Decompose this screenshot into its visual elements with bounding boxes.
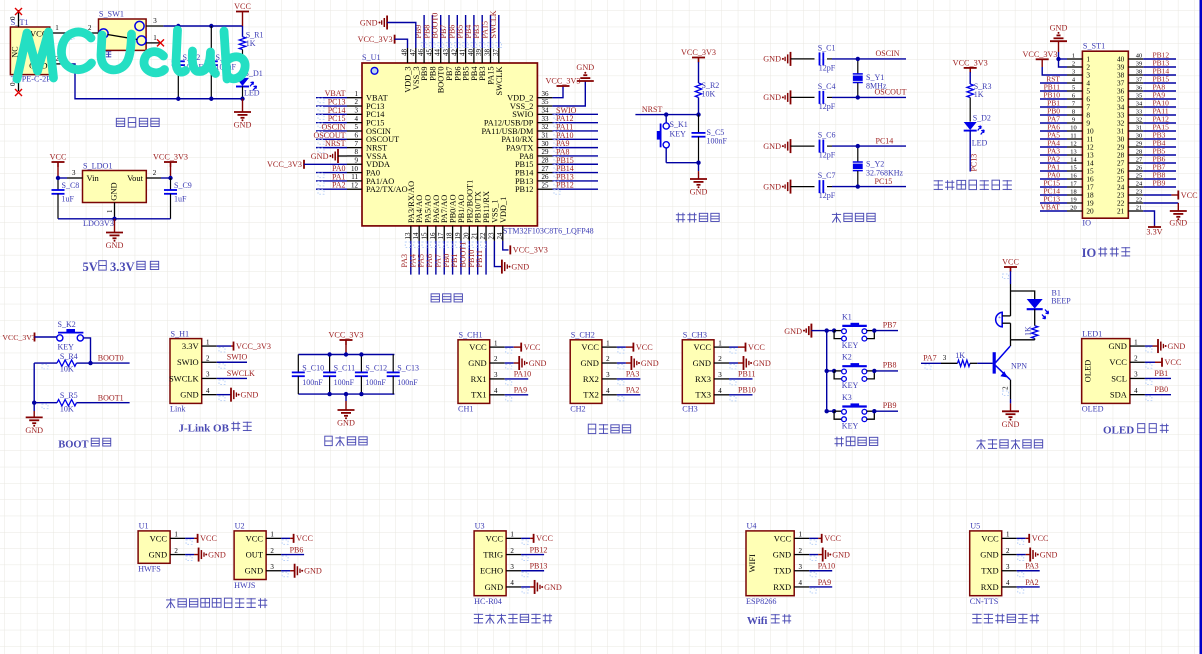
svg-text:6: 6 <box>355 132 359 140</box>
wire and net label PC14 <box>316 113 347 115</box>
svg-text:VCC: VCC <box>748 343 765 352</box>
svg-text:3.3V: 3.3V <box>1146 228 1162 237</box>
svg-text:GND: GND <box>784 327 802 336</box>
wire and net label PB4 pin 29 <box>1143 146 1176 148</box>
svg-text:7: 7 <box>355 140 359 148</box>
svg-text:24: 24 <box>496 232 504 240</box>
svg-text:39: 39 <box>1136 61 1142 68</box>
svg-text:OSCIN: OSCIN <box>876 49 900 58</box>
key K2 KEY <box>825 369 829 373</box>
wire and net label PA12 pin 32 <box>1143 122 1176 124</box>
wire NRST node <box>635 114 698 116</box>
svg-text:CN-TTS: CN-TTS <box>970 597 999 606</box>
svg-text:PB12: PB12 <box>515 185 533 194</box>
pin 14 of S_ST1 <box>1067 162 1082 164</box>
pin 47 VSS_3 of U1 <box>415 48 417 63</box>
svg-text:IO: IO <box>1082 219 1091 228</box>
svg-text:S_C11: S_C11 <box>334 364 356 373</box>
svg-text:44: 44 <box>434 49 442 57</box>
wire and net label PC14 <box>832 145 906 147</box>
svg-text:LED: LED <box>972 139 988 148</box>
wire and net label PA6 pin 10 <box>1040 130 1067 132</box>
svg-text:1: 1 <box>153 34 157 42</box>
ground GND at U1 pin 35 <box>552 81 585 106</box>
svg-text:VCC: VCC <box>469 342 487 352</box>
wire and net label PA10 pin 34 <box>1143 106 1176 108</box>
svg-text:GND: GND <box>468 358 486 368</box>
svg-text:43: 43 <box>442 49 450 57</box>
svg-text:20: 20 <box>462 232 470 240</box>
svg-text:0: 0 <box>9 16 17 20</box>
wire and net label PB7 <box>448 15 450 48</box>
pin 17 PA7/AO of U1 <box>443 226 445 241</box>
svg-text:PB0: PB0 <box>1154 385 1168 394</box>
wire and net label PC15 <box>316 122 347 124</box>
pin 7 NRST of U1 <box>347 147 362 149</box>
svg-text:21: 21 <box>1136 205 1142 212</box>
LED S_D1 <box>242 50 244 78</box>
svg-text:U2: U2 <box>235 522 245 531</box>
svg-text:KEY: KEY <box>842 341 859 350</box>
wire and net label OSCOUT <box>832 96 906 98</box>
wire filter bottom rail <box>298 393 394 395</box>
power VCC at pin 23 <box>1143 194 1171 196</box>
wire and net label PA12 <box>552 122 598 124</box>
wire and net label PC15 <box>832 186 906 188</box>
svg-text:31: 31 <box>1136 125 1142 132</box>
wire and net label BOOT1 <box>91 402 130 404</box>
svg-text:GND: GND <box>980 549 998 559</box>
svg-text:PB12: PB12 <box>556 181 574 190</box>
svg-text:19: 19 <box>1070 197 1076 204</box>
pin 2 of S_ST1 <box>1067 66 1082 68</box>
wire and net label PA1 <box>316 180 347 182</box>
svg-text:RX2: RX2 <box>583 374 599 384</box>
svg-text:PB11: PB11 <box>475 250 484 268</box>
svg-text:21: 21 <box>1117 207 1125 216</box>
svg-text:1: 1 <box>606 339 610 347</box>
svg-text:32: 32 <box>542 123 550 131</box>
svg-text:VCC: VCC <box>524 343 541 352</box>
pin 45 PB8 of U1 <box>431 48 433 63</box>
pin 42 PB6 of U1 <box>456 48 458 63</box>
ground GND alarm <box>1010 399 1012 403</box>
module U2 HWJS <box>234 531 266 580</box>
svg-text:1: 1 <box>206 338 210 346</box>
title 分离式红外开关模块 <box>166 599 175 601</box>
svg-text:2: 2 <box>798 547 802 555</box>
svg-text:S_LDO1: S_LDO1 <box>83 162 113 171</box>
svg-text:GND: GND <box>241 390 259 399</box>
svg-text:4: 4 <box>798 579 802 587</box>
pin 8 VSSA of U1 <box>347 155 362 157</box>
svg-text:PA9: PA9 <box>514 386 528 395</box>
wire and net label PB6 <box>456 15 458 48</box>
svg-text:PA2: PA2 <box>332 181 346 190</box>
svg-text:3: 3 <box>1072 69 1075 76</box>
svg-text:27: 27 <box>542 165 550 173</box>
ground GND at U5 pin 2 <box>1017 554 1026 556</box>
ground GND at U1 pin 8 VSSA <box>337 149 339 163</box>
svg-text:2: 2 <box>153 169 157 177</box>
wire and net label PA0 <box>316 172 347 174</box>
connector LED1 OLED display <box>1082 339 1130 404</box>
wire and net label PB9 pin 24 <box>1143 186 1176 188</box>
svg-text:GND: GND <box>234 121 252 130</box>
pin 38 PA15 of U1 <box>490 48 492 63</box>
svg-text:GND: GND <box>180 390 198 400</box>
svg-text:100nF: 100nF <box>397 378 418 387</box>
svg-text:1: 1 <box>55 24 59 32</box>
svg-text:2: 2 <box>206 354 210 362</box>
pin 35 of S_ST1 <box>1128 98 1143 100</box>
pin 30 of S_ST1 <box>1128 138 1143 140</box>
pin 34 SWIO of U1 <box>537 113 552 115</box>
svg-text:GND: GND <box>529 359 547 368</box>
wire and net label RST pin 4 <box>1040 82 1067 84</box>
svg-text:28: 28 <box>1136 149 1142 156</box>
pin 18 of S_ST1 <box>1067 194 1082 196</box>
wire alarm bottom join <box>1011 339 1035 341</box>
svg-text:20: 20 <box>1070 205 1076 212</box>
svg-text:33: 33 <box>542 115 550 123</box>
svg-text:45: 45 <box>425 49 433 57</box>
svg-text:35: 35 <box>542 98 550 106</box>
svg-text:S_Y2: S_Y2 <box>866 160 884 169</box>
wire and net label PB0 at LED1 pin 4 <box>1145 394 1171 396</box>
svg-text:U3: U3 <box>475 522 485 531</box>
wire and net label PB8 <box>431 15 433 48</box>
pin 35 VSS_2 of U1 <box>537 105 552 107</box>
transistor Q1 NPN <box>1010 340 1012 346</box>
logo MCUclub watermark <box>17 30 245 79</box>
svg-text:39: 39 <box>475 49 483 57</box>
svg-text:SWCLK: SWCLK <box>495 66 504 95</box>
pin 3 of S_ST1 <box>1067 74 1082 76</box>
svg-text:GND: GND <box>485 582 503 592</box>
wire button bus <box>811 330 826 332</box>
svg-text:NRST: NRST <box>642 105 663 114</box>
svg-text:4: 4 <box>1134 387 1138 395</box>
pin 28 of S_ST1 <box>1128 154 1143 156</box>
svg-text:20: 20 <box>1086 207 1094 216</box>
svg-text:3: 3 <box>1134 371 1138 379</box>
wire and net label PA11 pin 33 <box>1143 114 1176 116</box>
svg-text:23: 23 <box>1136 189 1142 196</box>
wire and net label PB11 pin 5 <box>1040 90 1067 92</box>
svg-text:OLED: OLED <box>1082 405 1104 414</box>
power VCC at U4 pin 1 <box>809 537 818 539</box>
pin 40 PB4 of U1 <box>473 48 475 63</box>
wire and net label PB0 pin 8 <box>1040 114 1067 116</box>
pin 2 GND of S_T1 <box>50 63 65 65</box>
capacitor S_C7 12pF <box>791 186 815 188</box>
wire and net label SWIO at S_H1 pin 2 <box>217 361 247 363</box>
svg-text:S_C9: S_C9 <box>174 181 192 190</box>
power VCC_3V3 at U1 pin 36 <box>552 86 563 98</box>
svg-text:GND: GND <box>580 358 598 368</box>
svg-text:29: 29 <box>1136 141 1142 148</box>
ground GND at U4 pin 2 <box>809 554 818 556</box>
svg-text:18: 18 <box>1070 189 1076 196</box>
svg-text:VCC_3V3: VCC_3V3 <box>953 58 988 67</box>
svg-text:35: 35 <box>1136 93 1142 100</box>
svg-text:S_SW1: S_SW1 <box>99 10 124 19</box>
capacitor S_C4 12pF <box>791 96 815 98</box>
svg-text:3: 3 <box>606 371 610 379</box>
svg-text:K1: K1 <box>842 312 852 321</box>
svg-text:4: 4 <box>494 387 498 395</box>
svg-text:2: 2 <box>1002 386 1010 390</box>
power VCC at U1 pin 1 <box>185 537 194 539</box>
pin 0 top of S_T1 with no-ERC cross <box>18 10 20 27</box>
title 声光报警电路 <box>976 440 985 442</box>
svg-text:VCC: VCC <box>1109 357 1127 367</box>
pin 13 of S_ST1 <box>1067 154 1082 156</box>
svg-text:PB13: PB13 <box>530 562 548 571</box>
title 串口电路 <box>588 424 595 433</box>
wire and net label PA15 pin 31 <box>1143 130 1176 132</box>
svg-text:S_CH1: S_CH1 <box>459 331 483 340</box>
svg-text:PB9: PB9 <box>1153 179 1166 188</box>
svg-text:3: 3 <box>72 169 76 177</box>
svg-text:CH3: CH3 <box>682 405 697 414</box>
svg-text:3: 3 <box>510 563 514 571</box>
ground GND at U2 pin 3 <box>281 570 290 572</box>
svg-text:2: 2 <box>1072 61 1075 68</box>
pin 4 of S_ST1 <box>1067 82 1082 84</box>
wire and net label PB10 pin 6 <box>1040 98 1067 100</box>
pin 16 PA6/AO of U1 <box>435 226 437 241</box>
pin 31 of S_ST1 <box>1128 130 1143 132</box>
wire and net label PA11 <box>552 130 598 132</box>
pin 2 PC13 of U1 <box>347 105 362 107</box>
wire and net label PA9 at U4 pin 4 <box>809 586 832 588</box>
svg-text:BOOT0: BOOT0 <box>98 354 124 363</box>
pin 33 of S_ST1 <box>1128 114 1143 116</box>
svg-text:RX1: RX1 <box>471 374 487 384</box>
svg-text:Link: Link <box>170 405 186 414</box>
svg-text:1: 1 <box>718 339 722 347</box>
svg-text:36: 36 <box>542 90 550 98</box>
capacitor S_C5 100nF <box>698 115 700 133</box>
svg-text:VCC_3V3: VCC_3V3 <box>545 77 580 86</box>
wire and net label PA8 <box>552 155 598 157</box>
svg-text:KEY: KEY <box>842 381 859 390</box>
svg-text:KEY: KEY <box>842 422 859 431</box>
pin 21 PB10/TX of U1 <box>477 226 479 241</box>
svg-text:3.3V: 3.3V <box>110 260 135 274</box>
wire and net label PA3 at U5 pin 3 <box>1017 570 1040 572</box>
pin 36 VDD_2 of U1 <box>537 97 552 99</box>
svg-text:S_C12: S_C12 <box>365 364 387 373</box>
svg-text:1uF: 1uF <box>174 195 187 204</box>
ground GND at S_CH3 pin 2 <box>729 362 738 364</box>
svg-text:PB12: PB12 <box>530 545 548 554</box>
wire and net label PB8 <box>872 369 876 373</box>
svg-text:PB10: PB10 <box>738 386 756 395</box>
svg-text:HWFS: HWFS <box>138 565 161 574</box>
svg-text:ESP8266: ESP8266 <box>746 597 776 606</box>
svg-text:GND: GND <box>763 142 781 151</box>
pin 23 of S_ST1 <box>1128 194 1143 196</box>
svg-text:TX3: TX3 <box>695 390 711 400</box>
svg-text:GND: GND <box>773 549 791 559</box>
wire and net label PA3 <box>410 241 412 275</box>
svg-text:TXD: TXD <box>981 566 998 576</box>
svg-text:PC13: PC13 <box>970 154 979 172</box>
svg-text:GND: GND <box>106 241 124 250</box>
svg-text:KEY: KEY <box>58 343 75 352</box>
wire and net label OSCOUT <box>316 138 347 140</box>
svg-text:CH2: CH2 <box>570 405 585 414</box>
svg-text:GND: GND <box>1169 218 1187 227</box>
svg-text:12pF: 12pF <box>819 102 836 111</box>
ground GND at S_CH2 pin 2 <box>617 362 626 364</box>
svg-text:WIFI: WIFI <box>747 554 757 573</box>
connector S_CH2 serial <box>570 340 602 404</box>
connector S_H1 J-Link <box>170 339 202 404</box>
pin 2 of S_SW1 <box>84 32 99 34</box>
power VCC_3V3 reset <box>692 57 705 59</box>
svg-text:VCC: VCC <box>486 533 504 543</box>
svg-text:10: 10 <box>351 165 359 173</box>
svg-text:3: 3 <box>718 371 722 379</box>
capacitor S_C6 12pF <box>791 145 815 147</box>
wire and net label PB11 <box>485 241 487 275</box>
pin 15 PA5/AO of U1 <box>427 226 429 241</box>
pin 37 SWCLK of U1 <box>498 48 500 63</box>
wire and net label PB7 pin 26 <box>1143 170 1176 172</box>
switch S_SW1 <box>99 19 147 50</box>
svg-text:27: 27 <box>1136 157 1143 164</box>
svg-text:38: 38 <box>1136 69 1142 76</box>
title 按键电路 <box>834 438 843 440</box>
power VCC at LED1 pin 2 <box>1145 361 1155 363</box>
wire and net label PA9 <box>552 147 598 149</box>
pin 3 of S_LDO1 <box>67 177 83 179</box>
svg-text:29: 29 <box>542 148 550 156</box>
ground GND at LED1 pin 1 <box>1145 345 1153 347</box>
capacitor S_C11 100nF <box>329 355 331 373</box>
svg-text:1K: 1K <box>955 351 965 360</box>
wire and net label VBAT pin 20 <box>1040 210 1067 212</box>
svg-text:+: + <box>998 315 1001 321</box>
pin 21 of S_ST1 <box>1128 210 1143 212</box>
svg-text:1: 1 <box>1134 338 1138 346</box>
svg-text:SWCLK: SWCLK <box>489 10 498 38</box>
svg-text:S_C7: S_C7 <box>818 171 836 180</box>
wire and net label PC13 <box>316 105 347 107</box>
power VCC at S_CH2 pin 1 <box>617 346 626 348</box>
power VCC ldo input <box>52 161 65 163</box>
title 滤波电路 <box>325 436 332 445</box>
pin 12 PA2/TX/AO of U1 <box>347 188 362 190</box>
svg-text:23: 23 <box>487 232 495 240</box>
svg-text:VCC: VCC <box>824 534 841 543</box>
pin 11 PA1/AO of U1 <box>347 180 362 182</box>
svg-text:PA2: PA2 <box>626 386 640 395</box>
resistor 1K vertical <box>1034 309 1036 326</box>
svg-text:VCC_3V3: VCC_3V3 <box>513 246 548 255</box>
ground GND at U3 pin 4 <box>521 586 530 588</box>
svg-text:ECHO: ECHO <box>480 566 503 576</box>
wire and net label PB13 pin 39 <box>1143 66 1176 68</box>
pin 18 PB0/AO of U1 <box>452 226 454 241</box>
wire and net label PC14 pin 18 <box>1040 194 1067 196</box>
key S_K1 KEY reset button <box>665 115 667 123</box>
wire and net label PA6 <box>435 241 437 275</box>
svg-text:S_U1: S_U1 <box>362 53 381 62</box>
wire pin2 to vcc_3v3 <box>161 177 171 179</box>
svg-text:1: 1 <box>174 531 178 539</box>
wire and net label PB1 pin 7 <box>1040 106 1067 108</box>
svg-text:K3: K3 <box>842 393 852 402</box>
wire to LED branch <box>1011 291 1035 299</box>
wire and net label PA7 <box>443 241 445 275</box>
pin 27 PB14 of U1 <box>537 172 552 174</box>
svg-text:2: 2 <box>606 355 610 363</box>
svg-text:GND: GND <box>763 182 781 191</box>
svg-text:S_C10: S_C10 <box>302 364 324 373</box>
svg-text:CH1: CH1 <box>458 405 473 414</box>
svg-text:Wifi: Wifi <box>747 615 768 627</box>
wire filter top rail <box>298 354 394 356</box>
wire and net label PC13 pin 19 <box>1040 202 1067 204</box>
svg-text:40: 40 <box>467 49 475 57</box>
svg-text:OUT: OUT <box>246 549 264 559</box>
svg-text:U1: U1 <box>139 522 149 531</box>
svg-text:4: 4 <box>206 387 210 395</box>
svg-text:12pF: 12pF <box>819 191 836 200</box>
power 3.3V at pin 21 <box>1143 211 1154 226</box>
power VCC at U2 pin 1 <box>281 537 290 539</box>
wire and net label PA9 at S_CH1 pin 4 <box>505 394 529 396</box>
connector S_T1 TYPE-C-2P <box>10 27 49 75</box>
pin 5 of S_ST1 <box>1067 90 1082 92</box>
svg-text:3: 3 <box>355 107 359 115</box>
wire bottom rail <box>75 98 243 100</box>
svg-text:VCC: VCC <box>50 153 67 162</box>
key S_K2 KEY <box>35 336 57 338</box>
svg-text:41: 41 <box>459 49 467 57</box>
ground GND reset <box>698 163 700 171</box>
svg-text:S_K2: S_K2 <box>58 320 76 329</box>
svg-text:30: 30 <box>1136 133 1142 140</box>
pin 5 OSCIN of U1 <box>347 130 362 132</box>
svg-text:NRST: NRST <box>325 139 346 148</box>
ground GND at S_H1 pin 4 <box>217 394 231 396</box>
svg-text:3.3V: 3.3V <box>182 341 200 351</box>
svg-text:13: 13 <box>1070 149 1076 156</box>
svg-text:2: 2 <box>355 98 359 106</box>
wire and net label PB1 at LED1 pin 3 <box>1145 377 1171 379</box>
svg-text:4: 4 <box>510 579 514 587</box>
svg-text:2: 2 <box>494 355 498 363</box>
svg-text:SWIO: SWIO <box>177 357 199 367</box>
svg-text:Vout: Vout <box>127 173 144 183</box>
ground GND for S_C7 <box>790 180 792 194</box>
svg-text:SWCLK: SWCLK <box>227 369 255 378</box>
pin 43 PB7 of U1 <box>448 48 450 63</box>
ground GND for S_C6 <box>790 139 792 153</box>
svg-text:VCC: VCC <box>774 533 792 543</box>
pin 22 of S_ST1 <box>1128 202 1143 204</box>
svg-text:U5: U5 <box>970 522 980 531</box>
pin 7 of S_ST1 <box>1067 106 1082 108</box>
pin 27 of S_ST1 <box>1128 162 1143 164</box>
ground GND top of S_ST1 <box>1050 40 1067 42</box>
